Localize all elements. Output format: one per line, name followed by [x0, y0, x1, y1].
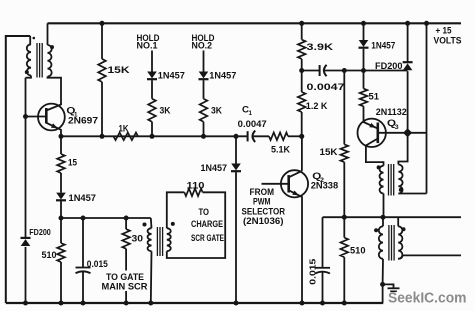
capacitor 0.015 right — [315, 267, 330, 269]
transformer T1 right winding — [48, 45, 52, 77]
node cap row 51 — [361, 68, 366, 73]
transformer T3 left winding — [380, 166, 384, 194]
wire cap right col — [322, 217, 324, 268]
svg-text:NO.2: NO.2 — [192, 40, 213, 51]
svg-text:TO: TO — [199, 207, 210, 218]
node rail 344 — [342, 301, 347, 306]
transistor Q2 emitter lead — [289, 190, 302, 303]
diode FD200 left — [21, 237, 31, 239]
svg-text:(2N1036): (2N1036) — [243, 216, 284, 227]
node row hold2 — [201, 134, 206, 139]
transformer T1 right polarity dot — [50, 45, 54, 49]
wire diode to node — [60, 201, 62, 218]
resistor 5.1K — [269, 133, 288, 141]
resistor 110 — [184, 189, 202, 197]
wire to ground — [383, 284, 394, 288]
transistor Q2 circle — [281, 170, 308, 197]
wire 510r bottom — [343, 257, 345, 303]
resistor 1K — [114, 133, 139, 141]
resistor 15K left — [98, 59, 106, 82]
svg-text:SCR GATE: SCR GATE — [191, 233, 224, 244]
svg-text:2N338: 2N338 — [311, 181, 339, 192]
wire T2 right top lead — [167, 192, 185, 228]
transformer T4 right polarity dot — [402, 227, 406, 231]
transistor Q2 base wire — [262, 183, 289, 185]
wire to 1.2K — [301, 71, 303, 93]
svg-text:1N457: 1N457 — [69, 193, 97, 203]
wire res30 top — [125, 218, 127, 229]
resistor 15K right — [341, 144, 349, 162]
wire 510r top — [343, 217, 345, 237]
wire T1 left bottom to base column — [26, 76, 32, 78]
node row diode — [234, 134, 239, 139]
svg-text:510: 510 — [42, 250, 57, 261]
resistor 51 — [360, 89, 368, 107]
transformer T3 core — [388, 164, 390, 196]
wire T1 right bottom to Q1 collector — [48, 77, 62, 106]
transformer T2 right winding — [167, 228, 171, 251]
svg-text:FD200: FD200 — [375, 61, 403, 71]
node rail 61 — [59, 301, 64, 306]
node wireA T4 — [381, 215, 386, 220]
svg-text:5.1K: 5.1K — [271, 144, 290, 154]
node rail 3.9K — [299, 21, 304, 26]
svg-text:CHARGE: CHARGE — [191, 219, 223, 230]
node rail 150 — [148, 301, 153, 306]
node 218 cap — [81, 216, 86, 221]
svg-text:0.0047: 0.0047 — [238, 119, 267, 129]
resistor 3K hold2 — [200, 99, 208, 122]
transformer T1 left winding — [27, 44, 31, 75]
node rail FD200r — [405, 21, 410, 26]
svg-text:1N457: 1N457 — [201, 163, 228, 173]
wire 1n457 mid bottom — [235, 172, 237, 303]
wire output row — [323, 216, 462, 218]
transformer T1 left winding lead — [29, 36, 31, 44]
svg-text:NO.1: NO.1 — [137, 40, 159, 51]
transistor Q1 collector lead — [46, 105, 61, 111]
node 0.0047 left — [299, 68, 304, 73]
node rail 83 — [81, 301, 86, 306]
svg-text:MAIN SCR: MAIN SCR — [102, 282, 148, 293]
wire res30 bottom — [125, 249, 127, 272]
transistor Q3 emitter arrow — [369, 123, 376, 128]
svg-text:1N457: 1N457 — [158, 71, 185, 81]
transformer T2 left polarity dot — [143, 223, 147, 227]
transformer T1 right winding top lead — [47, 23, 49, 45]
wire col to 510 — [60, 218, 62, 243]
svg-text:1N457: 1N457 — [209, 71, 236, 81]
diode 1N457 top right — [359, 40, 369, 47]
wire 1n457tr stub — [363, 23, 365, 40]
svg-text:510: 510 — [350, 246, 366, 257]
node rail 322 — [320, 301, 325, 306]
wire 3.9K bottom — [301, 59, 303, 71]
node Q1 emitter junction — [59, 134, 64, 139]
svg-text:0.015: 0.015 — [87, 259, 108, 269]
node row 15K — [100, 134, 105, 139]
node rail FD200 — [23, 301, 28, 306]
diode FD200 right — [403, 61, 413, 63]
transformer T4 left polarity dot — [374, 228, 378, 232]
svg-text:15: 15 — [68, 158, 78, 169]
transistor Q1 base bar — [45, 108, 48, 123]
svg-text:1: 1 — [249, 110, 253, 117]
resistor 15 — [57, 154, 65, 173]
wire cap row left — [302, 70, 320, 72]
wire T3 right top lead — [398, 133, 407, 165]
resistor 30 — [122, 229, 130, 249]
wire base column — [25, 78, 27, 238]
wire T4 right top lead — [397, 217, 399, 226]
svg-text:3K: 3K — [211, 106, 222, 117]
wire output lower — [398, 255, 461, 258]
wire 5.1K to node — [288, 135, 302, 137]
node ground junction — [380, 282, 385, 287]
resistor 1.2K — [298, 92, 306, 112]
wire C1 to 5.1K — [253, 135, 269, 137]
transistor Q1 emitter lead — [46, 123, 61, 137]
resistor 510 right — [341, 238, 349, 258]
transistor Q2 base bar — [287, 175, 290, 192]
node rail 1N457tr — [361, 21, 366, 26]
wire res30 stub — [125, 291, 127, 303]
transformer T1 left polarity dot — [25, 70, 29, 74]
transformer T4 right winding — [398, 226, 402, 258]
transformer T2 core — [156, 227, 158, 256]
node rail 236 — [234, 301, 239, 306]
wire cap to rail — [82, 272, 84, 303]
transformer T2 left bottom lead — [150, 251, 153, 303]
svg-text:0.015: 0.015 — [308, 258, 318, 284]
wire 1.2K bottom — [301, 112, 303, 136]
wire hold1 mid — [151, 80, 153, 99]
wire T3 left bottom lead — [383, 194, 385, 218]
node 218 res30 — [124, 216, 129, 221]
transformer T4 core — [388, 225, 390, 261]
capacitor 0.015 left — [76, 267, 91, 269]
svg-text:51: 51 — [369, 91, 380, 102]
transformer T3 left polarity dot — [377, 165, 381, 169]
node 218 left — [59, 216, 64, 221]
transformer T1 core — [36, 43, 38, 78]
svg-text:3.9K: 3.9K — [307, 42, 334, 53]
svg-text:2N1132: 2N1132 — [376, 107, 407, 118]
wire 15K bottom — [101, 82, 103, 136]
transformer T3 right winding — [398, 165, 402, 194]
diode 1N457 hold2 — [199, 72, 209, 79]
wire emitter col upper — [60, 136, 62, 154]
wire 51 top — [363, 71, 365, 89]
svg-text:3K: 3K — [160, 106, 171, 117]
svg-text:30: 30 — [132, 233, 144, 244]
resistor 510 left — [57, 243, 65, 262]
wire right rail — [426, 23, 428, 193]
wire T3 right bottom lead — [398, 193, 426, 195]
wire 3.9K top — [301, 23, 303, 39]
node row hold1 — [150, 134, 155, 139]
wire bottom ground rail — [6, 302, 383, 304]
wire T4 left bottom lead — [382, 259, 384, 285]
node rail Q2 emitter — [300, 301, 305, 306]
wire Q1 base — [26, 116, 47, 118]
wire 110 loop right — [167, 192, 225, 258]
capacitor 0.0047 top — [319, 65, 321, 76]
wire hold1 stub — [151, 51, 153, 72]
transistor Q3 collector lead — [366, 139, 384, 166]
svg-text:15K: 15K — [108, 65, 130, 76]
node rail 126 — [124, 301, 129, 306]
wire Q2 collector — [289, 136, 302, 177]
transistor Q2 emitter arrow — [292, 191, 299, 196]
diode 1N457 left — [56, 193, 66, 200]
transistor Q1 circle — [38, 104, 65, 131]
transformer T2 left lead — [150, 218, 153, 228]
node Q1 base junction — [23, 114, 28, 119]
wire cap right bottom — [322, 272, 324, 303]
wire hold2 bottom — [203, 122, 205, 137]
svg-text:1.2 K: 1.2 K — [306, 101, 328, 112]
svg-text:1N457: 1N457 — [371, 41, 395, 51]
svg-text:3: 3 — [395, 124, 399, 131]
wire hold2 stub — [203, 51, 205, 72]
wire FD200r top — [407, 23, 409, 62]
ground — [388, 287, 400, 289]
transformer T2 left winding — [148, 228, 152, 251]
wire FD200r bottom — [407, 71, 409, 133]
wire 15Kr bottom — [343, 162, 345, 217]
transformer T2 right polarity dot — [171, 222, 175, 226]
wire 15Kr top — [343, 71, 345, 145]
transformer T1 polarity dot small — [33, 37, 36, 40]
wire main row — [61, 135, 248, 137]
node cap row 15K — [342, 68, 347, 73]
svg-text:2N697: 2N697 — [68, 115, 98, 126]
wire cap row right — [324, 70, 408, 72]
label TO GATE MAIN SCR — [100, 271, 149, 291]
transformer T4 left winding — [379, 226, 383, 258]
transistor Q3 emitter lead — [364, 106, 378, 128]
wire T4 left lead — [382, 217, 384, 226]
node wireA 344 — [342, 215, 347, 220]
wire ground col to rail — [382, 284, 384, 303]
wire 510 to rail — [60, 262, 62, 303]
resistor 3K hold1 — [148, 99, 156, 122]
wire cap col — [82, 218, 84, 268]
node rail right — [424, 21, 429, 26]
svg-text:FD200: FD200 — [29, 228, 51, 237]
wire hold1 bottom — [151, 122, 153, 137]
transistor Q3 circle — [358, 119, 386, 147]
node rail 15K — [100, 21, 105, 26]
node mid 301 — [299, 134, 304, 139]
wire +15V top rail — [48, 22, 462, 24]
wire left rail — [6, 36, 30, 303]
transistor Q3 base bar — [376, 123, 379, 144]
wire node row 218 — [61, 217, 151, 219]
wire 15K top — [101, 23, 103, 59]
node Q3 base diamond — [403, 128, 412, 137]
svg-text:SeekIC.com: SeekIC.com — [388, 291, 467, 307]
wire 15 to diode — [60, 173, 62, 193]
diode 1N457 mid — [231, 164, 241, 171]
transistor Q3 base wire — [378, 132, 427, 134]
wire hold2 mid — [203, 80, 205, 99]
transistor Q1 emitter arrow — [51, 123, 58, 128]
wire 1n457tr bottom — [363, 49, 365, 71]
capacitor C1 — [247, 131, 249, 141]
svg-text:15K: 15K — [320, 147, 338, 158]
svg-text:0.0047: 0.0047 — [307, 82, 345, 92]
svg-text:VOLTS: VOLTS — [434, 36, 462, 46]
wire 1n457 mid top — [235, 136, 237, 163]
svg-text:110: 110 — [187, 181, 205, 192]
wire FD200 to rail — [25, 247, 27, 303]
transformer T3 right polarity dot — [399, 188, 403, 192]
svg-text:1K: 1K — [119, 123, 129, 134]
resistor 3.9K — [298, 40, 306, 59]
diode 1N457 hold1 — [147, 72, 157, 79]
